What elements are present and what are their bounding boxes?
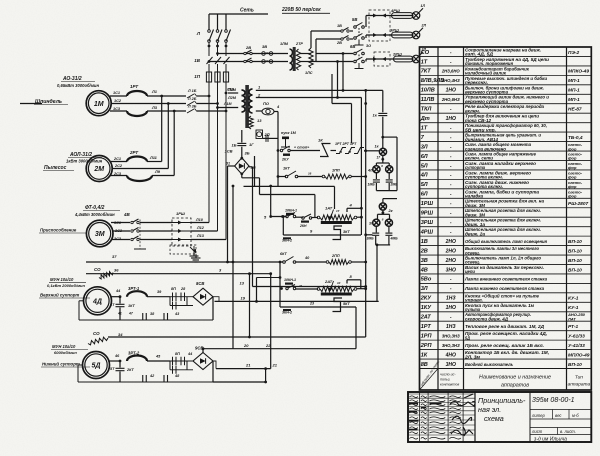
junction x365 y234 (364, 233, 367, 236)
contact block 8П upper (170, 293, 193, 302)
junction net21 mid (264, 367, 267, 370)
table row line 30 (420, 330, 592, 332)
riser to tap1 (342, 54, 344, 91)
table row line 29 (420, 320, 592, 322)
phase bus 1 mid segment (208, 43, 210, 57)
table row 5: 10ЛВ (421, 84, 580, 94)
junction row2 x365 (364, 175, 367, 178)
junction phase 2 y46 (216, 45, 219, 48)
phase bus 3 mid segment (225, 43, 227, 57)
feeder to 2M phase2 (167, 104, 169, 169)
revision grid row 9 (408, 429, 475, 431)
table row line 20 (420, 235, 592, 237)
table column line 2 (463, 47, 465, 390)
cluster A right bus upper (396, 137, 398, 191)
junction feeder3 (173, 110, 176, 113)
wire 3M phase3 a (111, 239, 130, 241)
table row line 32 (420, 349, 592, 351)
table row 1: СО (421, 47, 580, 56)
switch 2В pole a (244, 50, 252, 55)
capacitor 4Т top lead (119, 297, 121, 304)
junction 6KT left (226, 261, 229, 264)
cluster A lamp b drop (388, 163, 390, 166)
resistor СО upper (99, 272, 113, 279)
table row line 11 (420, 150, 592, 152)
branch wire to lighting a (218, 53, 289, 55)
wire 3M phase1 c (191, 222, 209, 224)
revision grid row 3 (408, 401, 475, 403)
label underline Верхний суппорт (39, 297, 90, 299)
cluster B bottom bar (376, 244, 390, 246)
signal lamp 7Л (385, 219, 392, 226)
button 10КН-1 bar (286, 213, 294, 215)
lamp 1Л tick (419, 8, 423, 12)
contact 38 bars (143, 313, 147, 320)
cluster A cap b tail (388, 183, 390, 191)
junction net13 right (364, 285, 367, 288)
table row line 26 (420, 292, 592, 294)
wire 1M phase1 b (147, 95, 186, 97)
junction x278 row1 (277, 149, 280, 152)
2ПП row wire c (352, 261, 366, 263)
button 10КН-2 bar (285, 283, 293, 285)
table row 26: 3Л (421, 286, 545, 292)
connector ground arrow (193, 246, 195, 252)
label underline АО-31/2 (61, 81, 95, 83)
junction bridge top vertex (240, 157, 243, 160)
resistor 2ПП (329, 260, 349, 265)
net 37 riser x233 (232, 186, 234, 349)
lamp 2Л tick (419, 28, 423, 32)
autotransformer 1АТ winding (320, 215, 354, 220)
lamp 2Л cable capsule (392, 32, 414, 38)
rectifier 8СВ (193, 288, 213, 305)
junction x278 row2 (277, 175, 280, 178)
revision grid column 4 (462, 392, 464, 442)
junction node 44 (119, 295, 122, 298)
net 21 wire (216, 368, 271, 370)
junction net3 drop top (248, 272, 251, 275)
tap2 drop x361 (360, 98, 362, 236)
connector arrows lamp1 (373, 14, 386, 18)
phase bus 2 mid segment (217, 43, 219, 57)
net 21 connect 5Д (265, 369, 267, 382)
wire 1M phase3 b (147, 110, 186, 112)
phase bus 3 lower segment (225, 64, 227, 72)
net 37 wire (86, 261, 233, 263)
control row2 wire b (298, 176, 323, 178)
lamp2 riser (365, 35, 367, 38)
signal lamp 2Л (412, 31, 420, 39)
junction riser tap1 top (342, 52, 345, 55)
table row 17: 1РШ (421, 199, 589, 208)
table row line 15 (420, 188, 592, 190)
riser to tap2 (337, 62, 339, 98)
junction lighting a (216, 52, 219, 55)
table row line 10 (420, 141, 592, 143)
table row line 2 (420, 65, 592, 67)
capacitor 4Т bottom lead (119, 308, 121, 321)
contactor auxiliary contact 1К (320, 144, 331, 157)
ground below 1РШ (190, 252, 199, 260)
table row 24: 4В (420, 265, 582, 274)
label 3КН-2 b bar (283, 309, 291, 311)
cluster B split bar (378, 213, 390, 215)
table row line 24 (420, 273, 592, 275)
cluster B cap a tail (375, 236, 377, 245)
wire 3M phase2 c (191, 230, 218, 232)
motor 1М (86, 91, 111, 116)
label 3КН-2 bar (283, 237, 291, 239)
2AT feed wire (257, 277, 281, 279)
control row1 wire b (290, 150, 320, 152)
fuse 1П pole 2 internal (217, 72, 219, 82)
title block outer frame (408, 392, 591, 442)
lamp3 wire (366, 58, 412, 60)
table row line 25 (420, 282, 592, 284)
autotransformer 2АТ winding (320, 286, 354, 291)
phase bus 3 upper segment (225, 14, 227, 30)
table row line 17 (420, 207, 592, 209)
table row line 7 (420, 112, 592, 114)
connector arrows lamp2 (373, 33, 386, 37)
wire 4Д bottom (79, 319, 213, 321)
table row 4: 8ЛВ,9ЛВ (421, 75, 580, 85)
contact block 9П lower (170, 361, 193, 374)
contact Л pole 2 (215, 57, 221, 64)
table row line 12 (420, 159, 592, 161)
table row 14: 4Л (420, 170, 583, 179)
net 20 connect 5Д top (202, 349, 204, 353)
label underline АОЛ (68, 157, 102, 159)
switch 1В pole a (341, 28, 349, 33)
capacitor 1МБ (373, 180, 380, 182)
junction 1AT btn (281, 215, 284, 218)
junction 1AT left drop (282, 215, 285, 218)
table row line 5 (420, 93, 592, 95)
secondary tap 1 wire (256, 89, 383, 91)
control row1 wire d (364, 150, 379, 152)
motor 1M lead-in (20, 103, 42, 105)
cluster B lamp b drop (389, 214, 391, 219)
button 2КН contact (302, 214, 312, 219)
table row line 23 (420, 263, 592, 265)
lamp2 wire (366, 34, 412, 36)
switch 4В pole 3 (131, 236, 139, 241)
table row line 3 (420, 74, 592, 76)
top supply wire (209, 13, 268, 15)
wire bridge bottom drop (259, 178, 261, 195)
contactor contact Л3 (187, 109, 197, 114)
lamp1 wire (366, 15, 412, 17)
wire 2M phase1 b (147, 161, 162, 163)
ground at limit switch (192, 254, 201, 262)
junction feeder1 (160, 95, 163, 98)
2AT row wire b (296, 288, 318, 290)
relay coil 3РТ-1 (127, 291, 147, 297)
primary lead b (218, 107, 239, 109)
cluster A lamp b lead (388, 173, 390, 179)
center bus x365 (365, 90, 367, 337)
tap1 drop x382 lower (382, 117, 384, 149)
main switch Л pole 2 (216, 30, 222, 43)
phase bus 3 feeder (225, 82, 227, 240)
table row line 18 (420, 216, 592, 218)
table row 33: 1К (421, 350, 590, 359)
thermal element 1РТ phase1 (127, 91, 147, 96)
3KT2 row wire (280, 306, 356, 308)
wire 5Д bottom (78, 381, 213, 383)
revision signatures (450, 394, 475, 436)
nested drop x314 (314, 195, 316, 218)
lighting transformer 1ЛТ primary (290, 49, 293, 70)
table row 6: 11ЛВ (421, 94, 580, 104)
capacitor 5Т (116, 368, 125, 370)
table row 21: 1В (421, 238, 582, 245)
tap1 drop x382 upper (382, 90, 384, 112)
wire 5Д left bracket v (77, 365, 79, 382)
junction net37 y262 (232, 261, 235, 264)
contact block 9П upper (170, 357, 193, 366)
wire 2M phase3 a (111, 175, 128, 177)
autotransformer 2АТ bar (321, 293, 352, 296)
net 20 riser x356 (355, 307, 357, 349)
table row 20: 4РШ (420, 227, 541, 236)
switch 2В pole b (244, 58, 252, 63)
1AT row wire a (271, 216, 287, 218)
cluster B lamp a drop (377, 214, 379, 219)
transformer 1ТР primary (242, 90, 246, 112)
junction 2AT feed (279, 276, 282, 279)
signal lamp 3Л (412, 55, 420, 63)
wire 3M phase2 a (113, 230, 130, 232)
lamp 3Л tick (419, 52, 423, 56)
wire 1M phase3 a (110, 110, 127, 112)
revision grid row 5 (408, 410, 475, 412)
time contact 1КТ (285, 171, 298, 178)
rectifier 9СВ (193, 353, 213, 370)
contact 43 bars (164, 313, 168, 320)
lamp 1Л cable capsule (392, 13, 414, 19)
switch 4В pole 2 (131, 228, 139, 233)
wire 8СВ to net19 (213, 297, 219, 302)
table row 18: 9РШ (421, 208, 541, 217)
net 21 riser x270 lower (270, 274, 272, 369)
label underline ФТ (83, 210, 120, 212)
junction phase3/1M (225, 110, 228, 113)
secondary tap 3 wire (256, 110, 262, 112)
nested drop x334 (334, 186, 336, 209)
lighting transformer secondary (296, 49, 300, 70)
contact 41 bars (164, 375, 168, 382)
wire lamp row2 feed (316, 38, 341, 40)
table row 29: 2АТ (420, 311, 586, 321)
1AT row wire c (312, 217, 319, 219)
cluster A top link (383, 136, 397, 138)
junction node4 bus (360, 207, 363, 210)
table row 32: 2РП (420, 343, 585, 349)
wire to 6В a (316, 53, 353, 55)
button 10КН-1 contact (286, 213, 296, 218)
wire neon link (263, 137, 278, 139)
table row 15: 5Л (421, 180, 583, 189)
switch 4В handle bar (134, 248, 146, 250)
revision grid row 1 (408, 393, 475, 395)
wire 3M phase3 b (140, 239, 172, 241)
table header diagonal (420, 369, 439, 391)
table row 16: 6Л (421, 188, 583, 198)
lighting out wire a (300, 53, 311, 55)
revision grid dark entries (409, 403, 442, 431)
cluster B lamp a lead (375, 226, 377, 232)
1AT output wire (357, 216, 362, 218)
capacitor 4Т (116, 304, 125, 306)
pushbutton 1КУ пуск 1М (281, 137, 290, 148)
phase bus 1 feeder (208, 82, 210, 223)
wire 9СВ right drop (212, 361, 214, 382)
junction phase2/1M (216, 102, 219, 105)
thermal element 2РТ phase3 (127, 176, 152, 182)
nested wire y103 (332, 103, 352, 105)
table row 28: 1КУ (421, 303, 579, 312)
net 34 CO wire (108, 336, 366, 338)
thermal contact break 3 (354, 148, 364, 154)
table row line 9 (420, 131, 592, 133)
switch 6В (354, 49, 365, 69)
lamp 3Л cable capsule (394, 56, 414, 62)
junction cluster B net19 (376, 244, 379, 247)
title text (478, 396, 579, 443)
control row2 wire c (352, 176, 366, 178)
junction node 5 (269, 215, 272, 218)
button 2КН bar (301, 221, 309, 223)
junction riser tap1 (342, 89, 345, 92)
resistor 2ПП end circles (326, 261, 329, 264)
primary lead a (228, 92, 238, 94)
button 10КН-2 contact (286, 285, 296, 290)
cluster A coil bottom (382, 155, 384, 163)
capacitor 1В small (266, 135, 268, 142)
wire fuse drop x278 (277, 133, 279, 186)
wire to 5В a (350, 30, 353, 32)
node 8 loop right (360, 280, 362, 289)
table row 3: 7КТ (421, 65, 590, 75)
table row 12: 6Л (421, 151, 583, 161)
resistor 1ПП end circles (322, 175, 325, 178)
relay coil 3РТ-2 (127, 356, 147, 361)
junction bridge bottom vertex (240, 172, 243, 175)
thermal contact break 1 (336, 148, 346, 154)
title cell divider c (557, 428, 559, 435)
wire 1M phase2 c (197, 103, 218, 105)
bridge left lead (228, 165, 235, 167)
cluster A cap a tail (375, 183, 377, 191)
autotransformer 1АТ bar (321, 221, 352, 224)
title block row line 3 (530, 427, 591, 429)
1AT row wire b (296, 216, 304, 218)
nested riser x254 (254, 156, 256, 186)
motor 5Д (83, 352, 110, 379)
table row 8: Дт (420, 113, 540, 123)
cluster B coil bottom (382, 210, 384, 214)
3KT row wire (283, 234, 361, 236)
signal lamp 1Л (412, 12, 420, 20)
cluster B left link (366, 234, 373, 236)
junction net20 5Д (202, 347, 205, 350)
wire lamp row2 riser (315, 39, 317, 62)
phase bus 2 lower segment (217, 64, 219, 72)
table row line 28 (420, 311, 592, 313)
transformer 1ТР secondary (249, 89, 253, 113)
net 3 drop x249 (249, 274, 251, 337)
component table outer frame (420, 47, 592, 390)
wire 1M phase1 a (110, 95, 127, 97)
wire 2M phase2 a (112, 168, 168, 170)
table row 34: 8В (421, 361, 582, 368)
fuse 1П pole 1 internal (208, 72, 210, 82)
node 8 loop top (347, 279, 361, 281)
table row line 19 (420, 226, 592, 228)
cluster B lamp b lead (388, 226, 390, 232)
motor 2М (86, 156, 112, 182)
label underline 220V (282, 12, 330, 14)
capacitor 2МБ (386, 180, 393, 182)
resistor 1З below transformer (249, 116, 253, 129)
bridge right lead (249, 166, 253, 168)
resistor 1ПП (325, 174, 349, 179)
1АТ winding end circles (317, 216, 320, 219)
time contact 3КТ-2 blade (333, 298, 343, 312)
transformer core (245, 85, 249, 128)
junction node 46 (119, 360, 122, 363)
junction riser tap2 top (336, 60, 339, 63)
phase bus 1 upper segment (208, 14, 210, 30)
switch 4В gang link (139, 220, 141, 250)
main switch Л pole 1 (208, 30, 214, 43)
wire 1M phase1 c (197, 95, 209, 97)
wire lamp row1 feed (311, 30, 341, 32)
junction phase 1 y46 (208, 45, 211, 48)
limit switch arrow (190, 247, 195, 252)
contactor coil 1К (379, 148, 386, 155)
table header row separator (420, 368, 592, 370)
tap3 wire b (274, 111, 278, 113)
table row 23: 3В (421, 255, 582, 265)
capacitor 5Т top lead (119, 361, 121, 368)
label underline Шпиндель (34, 104, 68, 106)
net 13 wire (253, 286, 365, 288)
wire bridge left drop (227, 166, 229, 262)
wire 3M phase1 b (140, 222, 172, 224)
6KT row wire a (228, 261, 283, 263)
table row 30: 1РТ (421, 324, 579, 330)
revision grid row 8 (408, 424, 475, 426)
fuse 1П pole 3 (223, 72, 228, 82)
junction primary lead b (216, 106, 219, 109)
net 19 wire (215, 300, 379, 302)
table row line 1 (420, 55, 592, 57)
switch 5В (354, 23, 365, 46)
fuse 1П pole 3 internal (225, 72, 227, 82)
junction feeder2 (167, 102, 170, 105)
wire to 5В b (350, 38, 353, 40)
revision grid row 7 (408, 419, 475, 421)
2АТ winding end circles (317, 288, 320, 291)
fuse 1П pole 1 (206, 72, 211, 82)
net21 riser x271 upper (270, 186, 272, 217)
limit switch dashed box (170, 245, 196, 254)
pushbutton 2КУ стоп (280, 146, 290, 156)
